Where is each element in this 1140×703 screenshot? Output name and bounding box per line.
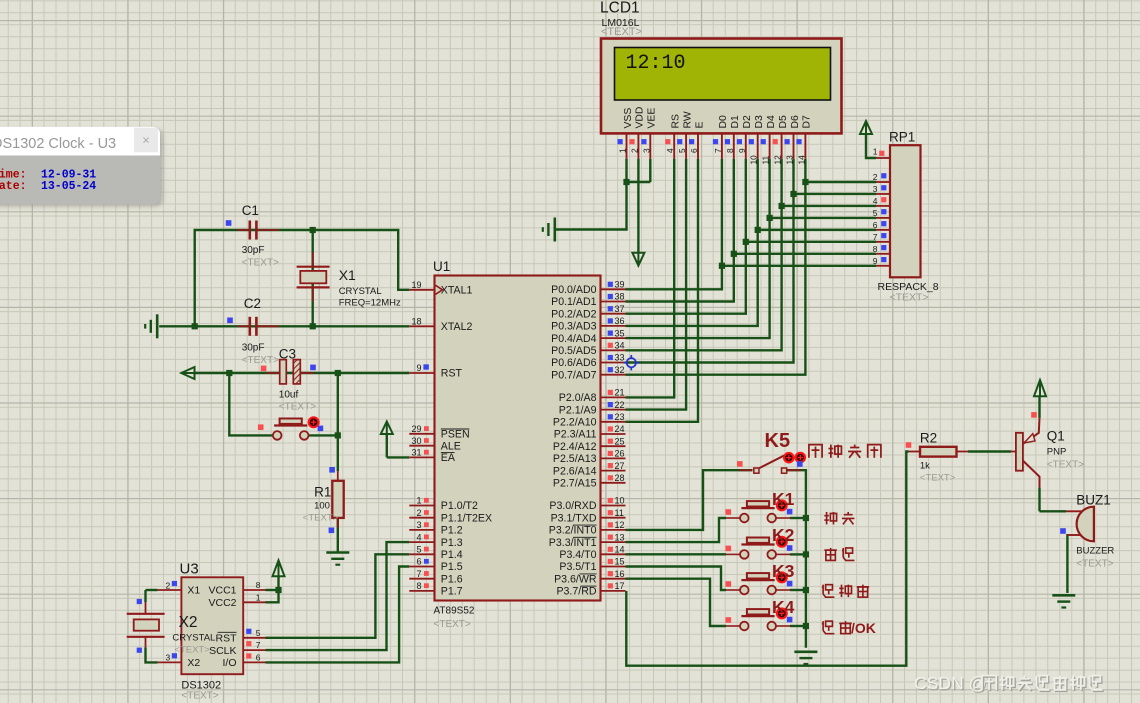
svg-text:CSDN @: CSDN @ — [914, 673, 986, 693]
svg-text:1: 1 — [256, 592, 261, 602]
svg-text:X2: X2 — [187, 657, 200, 669]
svg-text:P0.4/AD4: P0.4/AD4 — [551, 333, 596, 345]
svg-text:<TEXT>: <TEXT> — [1047, 460, 1084, 471]
svg-text:6: 6 — [689, 148, 699, 153]
svg-text:D3: D3 — [754, 115, 765, 129]
svg-text:LCD1: LCD1 — [600, 0, 640, 16]
svg-text:P3.5/T1: P3.5/T1 — [559, 561, 596, 573]
svg-text:3: 3 — [641, 148, 651, 153]
svg-text:<TEXT>: <TEXT> — [242, 355, 279, 366]
svg-text:ALE: ALE — [441, 440, 461, 452]
svg-text:30pF: 30pF — [242, 245, 265, 256]
svg-text:D2: D2 — [742, 115, 753, 129]
svg-text:P3.7/RD: P3.7/RD — [556, 586, 596, 598]
svg-text:4: 4 — [665, 148, 675, 153]
svg-text:9: 9 — [873, 256, 878, 266]
svg-text:I/O: I/O — [222, 657, 236, 669]
svg-text:2: 2 — [629, 148, 639, 153]
svg-text:VSS: VSS — [623, 108, 634, 129]
svg-text:1: 1 — [416, 496, 421, 506]
svg-text:CRYSTAL: CRYSTAL — [172, 633, 215, 644]
svg-text:3: 3 — [873, 184, 878, 194]
svg-text:R1: R1 — [314, 485, 331, 500]
svg-text:XTAL1: XTAL1 — [441, 285, 473, 297]
svg-text:P0.6/AD6: P0.6/AD6 — [551, 357, 596, 369]
svg-text:37: 37 — [615, 304, 625, 314]
svg-text:7: 7 — [256, 640, 261, 650]
svg-text:100: 100 — [314, 501, 330, 512]
svg-text:P1.6: P1.6 — [441, 573, 463, 585]
svg-text:10: 10 — [749, 155, 759, 165]
svg-text:24: 24 — [615, 424, 625, 434]
svg-text:X1: X1 — [187, 585, 200, 597]
svg-text:P2.0/A8: P2.0/A8 — [559, 392, 597, 404]
svg-text:12: 12 — [615, 520, 625, 530]
svg-text:U3: U3 — [180, 561, 199, 578]
svg-text:VEE: VEE — [647, 108, 658, 129]
svg-text:<TEXT>: <TEXT> — [920, 473, 956, 484]
svg-text:1: 1 — [618, 148, 628, 153]
svg-text:26: 26 — [615, 449, 625, 459]
svg-text:30pF: 30pF — [242, 343, 265, 354]
svg-text:P1.4: P1.4 — [441, 549, 463, 561]
svg-text:BUZ1: BUZ1 — [1076, 493, 1111, 508]
svg-text:C3: C3 — [279, 347, 296, 362]
svg-text:12:10: 12:10 — [626, 52, 686, 75]
svg-text:×: × — [142, 133, 150, 148]
svg-text:30: 30 — [411, 436, 421, 446]
svg-text:<TEXT>: <TEXT> — [890, 292, 929, 304]
svg-text:P3.6/WR: P3.6/WR — [554, 573, 597, 585]
svg-text:2: 2 — [873, 172, 878, 182]
svg-text:3: 3 — [416, 520, 421, 530]
svg-text:SCLK: SCLK — [209, 645, 236, 657]
svg-text:33: 33 — [615, 353, 625, 363]
svg-text:11: 11 — [615, 508, 624, 518]
svg-text:AT89S52: AT89S52 — [434, 606, 475, 617]
svg-text:10uf: 10uf — [279, 390, 299, 401]
svg-text:RW: RW — [682, 111, 693, 128]
svg-text:X2: X2 — [179, 614, 198, 631]
svg-text:1k: 1k — [920, 461, 930, 472]
svg-text:31: 31 — [411, 448, 421, 458]
svg-text:<TEXT>: <TEXT> — [279, 402, 316, 413]
svg-text:VDD: VDD — [635, 107, 646, 129]
svg-text:K2: K2 — [772, 525, 795, 545]
svg-text:14: 14 — [615, 545, 625, 555]
svg-text:P3.0/RXD: P3.0/RXD — [549, 500, 596, 512]
svg-text:D6: D6 — [790, 115, 801, 129]
svg-text:2: 2 — [165, 581, 170, 591]
svg-text:R2: R2 — [920, 431, 937, 446]
svg-text:P2.3/A11: P2.3/A11 — [554, 429, 597, 441]
svg-text:P0.0/AD0: P0.0/AD0 — [551, 284, 596, 296]
svg-text:K1: K1 — [772, 489, 795, 509]
svg-text:P2.6/A14: P2.6/A14 — [553, 465, 597, 477]
svg-text:P3.1/TXD: P3.1/TXD — [551, 512, 597, 524]
svg-text:6: 6 — [873, 220, 878, 230]
svg-text:P0.5/AD5: P0.5/AD5 — [551, 345, 596, 357]
svg-text:3: 3 — [165, 653, 170, 663]
svg-text:9: 9 — [416, 363, 421, 373]
svg-text:P1.5: P1.5 — [441, 561, 463, 573]
svg-text:5: 5 — [873, 208, 878, 218]
svg-text:P0.2/AD2: P0.2/AD2 — [551, 308, 596, 320]
svg-text:13-05-24: 13-05-24 — [41, 180, 96, 193]
svg-text:P1.3: P1.3 — [441, 537, 463, 549]
svg-text:PNP: PNP — [1047, 447, 1067, 458]
svg-text:C1: C1 — [242, 203, 259, 218]
svg-text:P2.1/A9: P2.1/A9 — [559, 404, 597, 416]
svg-text:<TEXT>: <TEXT> — [1076, 559, 1113, 570]
svg-text:7: 7 — [873, 232, 878, 242]
svg-text:C2: C2 — [244, 296, 261, 311]
svg-text:5: 5 — [416, 545, 421, 555]
svg-text:2: 2 — [416, 508, 421, 518]
svg-text:27: 27 — [615, 461, 625, 471]
svg-text:VCC2: VCC2 — [208, 597, 236, 609]
svg-text:K3: K3 — [772, 561, 795, 581]
svg-text:P1.1/T2EX: P1.1/T2EX — [441, 512, 492, 524]
svg-text:8: 8 — [256, 580, 261, 590]
svg-text:4: 4 — [416, 532, 421, 542]
svg-text:<TEXT>: <TEXT> — [242, 258, 279, 269]
svg-text:<TEXT>: <TEXT> — [303, 513, 339, 524]
svg-text:21: 21 — [615, 388, 625, 398]
svg-text:39: 39 — [615, 280, 625, 290]
svg-text:P0.7/AD7: P0.7/AD7 — [551, 369, 596, 381]
svg-text:D4: D4 — [766, 115, 777, 129]
svg-text:19: 19 — [411, 280, 421, 290]
svg-text:17: 17 — [615, 581, 625, 591]
svg-text:D5: D5 — [778, 115, 789, 129]
svg-text:<TEXT>: <TEXT> — [174, 645, 210, 656]
svg-text:38: 38 — [615, 292, 625, 302]
svg-text:16: 16 — [615, 569, 625, 579]
svg-text:34: 34 — [615, 341, 625, 351]
svg-text:28: 28 — [615, 473, 625, 483]
svg-text:23: 23 — [615, 412, 625, 422]
svg-text:EA: EA — [441, 452, 456, 464]
svg-text:VCC1: VCC1 — [208, 585, 236, 597]
svg-text:RS: RS — [671, 114, 682, 129]
svg-text:D1: D1 — [730, 115, 741, 129]
svg-text:32: 32 — [615, 365, 625, 375]
svg-text:RST: RST — [441, 368, 463, 380]
svg-text:12: 12 — [773, 155, 783, 165]
svg-text:D0: D0 — [718, 115, 729, 129]
svg-text:P3.3/INT1: P3.3/INT1 — [549, 537, 597, 549]
svg-text:13: 13 — [785, 155, 795, 165]
svg-text:<TEXT>: <TEXT> — [601, 26, 642, 38]
svg-text:11: 11 — [761, 156, 771, 165]
svg-text:5: 5 — [256, 628, 261, 638]
svg-text:14: 14 — [796, 155, 806, 165]
svg-text:XTAL2: XTAL2 — [441, 321, 473, 333]
svg-text:FREQ=12MHz: FREQ=12MHz — [339, 298, 401, 309]
svg-text:/OK: /OK — [851, 620, 876, 636]
svg-text:15: 15 — [615, 557, 625, 567]
svg-text:4: 4 — [873, 196, 878, 206]
svg-text:<TEXT>: <TEXT> — [434, 619, 471, 630]
svg-text:7: 7 — [713, 148, 723, 153]
svg-text:RP1: RP1 — [889, 130, 915, 145]
svg-text:P2.2/A10: P2.2/A10 — [553, 417, 597, 429]
svg-text:E: E — [694, 122, 705, 129]
svg-text:P2.5/A13: P2.5/A13 — [553, 453, 597, 465]
svg-text:6: 6 — [256, 652, 261, 662]
svg-text:8: 8 — [873, 244, 878, 254]
svg-text:35: 35 — [615, 328, 625, 338]
svg-text:18: 18 — [411, 317, 421, 327]
svg-text:P3.4/T0: P3.4/T0 — [559, 549, 596, 561]
svg-text:P2.4/A12: P2.4/A12 — [553, 441, 597, 453]
svg-text:10: 10 — [615, 496, 625, 506]
svg-text:29: 29 — [411, 424, 421, 434]
svg-text:13: 13 — [615, 532, 625, 542]
svg-text:36: 36 — [615, 316, 625, 326]
svg-text:X1: X1 — [339, 267, 356, 283]
svg-text:P3.2/INT0: P3.2/INT0 — [549, 525, 597, 537]
svg-text:P1.7: P1.7 — [441, 586, 463, 598]
svg-text:7: 7 — [416, 569, 421, 579]
svg-text:<TEXT>: <TEXT> — [181, 691, 218, 702]
svg-text:8: 8 — [725, 148, 735, 153]
svg-text:P2.7/A15: P2.7/A15 — [553, 478, 597, 490]
svg-text:P1.0/T2: P1.0/T2 — [441, 500, 478, 512]
svg-text:Date:: Date: — [0, 180, 27, 193]
svg-text:PSEN: PSEN — [441, 429, 470, 441]
svg-text:CRYSTAL: CRYSTAL — [339, 286, 382, 297]
svg-text:Q1: Q1 — [1047, 429, 1065, 444]
svg-text:8: 8 — [416, 581, 421, 591]
svg-text:DS1302 Clock - U3: DS1302 Clock - U3 — [0, 136, 116, 152]
svg-text:P1.2: P1.2 — [441, 525, 463, 537]
svg-text:K5: K5 — [765, 430, 791, 452]
svg-text:25: 25 — [615, 436, 625, 446]
svg-text:6: 6 — [416, 557, 421, 567]
svg-text:RST: RST — [216, 633, 238, 645]
svg-text:P0.3/AD3: P0.3/AD3 — [551, 321, 596, 333]
svg-text:5: 5 — [677, 148, 687, 153]
svg-text:K4: K4 — [772, 597, 795, 617]
svg-text:BUZZER: BUZZER — [1076, 546, 1114, 557]
svg-text:P0.1/AD1: P0.1/AD1 — [551, 296, 596, 308]
svg-text:1: 1 — [873, 147, 878, 157]
svg-text:D7: D7 — [802, 115, 813, 129]
svg-text:22: 22 — [615, 400, 625, 410]
svg-text:9: 9 — [737, 148, 747, 153]
svg-text:U1: U1 — [433, 259, 450, 274]
